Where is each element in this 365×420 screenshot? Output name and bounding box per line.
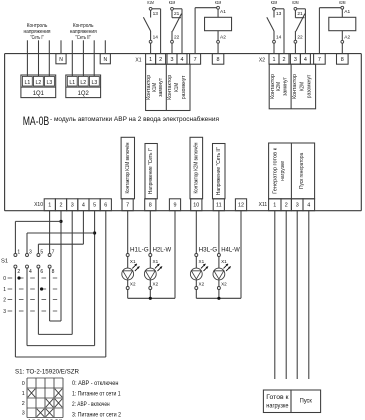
svg-text:22: 22 [174,35,180,41]
svg-text:H2L-W: H2L-W [153,247,172,253]
svg-text:К2М: К2М [339,0,345,6]
svg-text:H4L-W: H4L-W [221,247,240,253]
svg-text:К2М: К2М [299,82,305,91]
svg-text:0: 0 [22,381,25,387]
svg-text:Пуск: Пуск [300,397,312,404]
svg-text:2: 2 [22,401,25,407]
svg-text:3: 3 [29,249,32,255]
svg-text:N: N [103,57,107,63]
svg-text:1Q2: 1Q2 [78,90,89,97]
svg-text:3: 3 [296,203,299,209]
svg-text:6: 6 [40,269,43,275]
svg-text:13: 13 [153,11,159,17]
svg-text:1: 1 [48,203,51,209]
svg-text:Напряжение "Сеть I": Напряжение "Сеть I" [148,148,154,194]
svg-text:3: 3 [3,309,6,315]
svg-text:9: 9 [174,203,177,209]
svg-text:К1М: К1М [169,0,175,6]
svg-text:L2: L2 [80,80,86,86]
svg-text:Готов к: Готов к [266,394,288,401]
svg-text:L3: L3 [91,80,97,86]
svg-text:Х11: Х11 [259,202,268,208]
svg-text:7: 7 [126,203,129,209]
svg-text:X1: X1 [130,259,136,264]
svg-text:2: 2 [285,203,288,209]
svg-text:А2: А2 [344,35,350,41]
svg-text:11: 11 [216,203,222,209]
svg-text:N: N [59,57,63,63]
svg-text:S1: ТО-2-15920/Е/SZR: S1: ТО-2-15920/Е/SZR [15,368,80,375]
svg-text:Контактор К1М включён: Контактор К1М включён [125,142,131,193]
svg-text:X1: X1 [221,259,227,264]
svg-text:L2: L2 [36,80,42,86]
svg-text:L3: L3 [47,80,53,86]
svg-text:8: 8 [52,269,55,275]
svg-text:2: 2 [60,203,63,209]
svg-text:12: 12 [238,203,244,209]
svg-text:X2: X2 [130,282,136,287]
svg-text:разомкнут: разомкнут [306,74,312,98]
svg-text:К2М: К2М [276,82,282,91]
svg-text:1: Питание от сети 1: 1: Питание от сети 1 [72,392,121,398]
svg-text:нагрузке: нагрузке [280,161,286,181]
svg-text:8: 8 [217,57,220,63]
svg-text:L1: L1 [69,80,75,86]
svg-text:2: АВР - включен: 2: АВР - включен [72,402,110,408]
svg-text:"Сеть I": "Сеть I" [30,35,44,41]
svg-text:8: 8 [341,57,344,63]
svg-text:5: 5 [40,249,43,255]
svg-text:К1М: К1М [147,0,153,6]
svg-text:Х10: Х10 [34,202,43,208]
svg-text:4: 4 [181,57,184,63]
svg-text:Х1: Х1 [135,58,141,64]
svg-text:1: 1 [273,57,276,63]
svg-text:7: 7 [318,57,321,63]
svg-text:Контактор: Контактор [167,75,173,100]
svg-text:3: 3 [294,57,297,63]
svg-text:H1L-G: H1L-G [130,247,149,253]
svg-text:нагрузке: нагрузке [266,403,289,410]
svg-text:0: АВР - отключен: 0: АВР - отключен [72,381,118,387]
svg-text:7: 7 [194,57,197,63]
svg-text:Пуск генератора: Пуск генератора [299,153,305,189]
svg-text:X1: X1 [199,259,205,264]
svg-text:3: 3 [171,57,174,63]
svg-text:К1М: К1М [215,0,221,6]
svg-text:разомкнут: разомкнут [181,75,187,99]
svg-text:2: 2 [3,297,6,303]
svg-text:Генератор готов к: Генератор готов к [273,147,279,194]
svg-text:H3L-G: H3L-G [199,247,218,253]
svg-text:1Q1: 1Q1 [33,90,44,97]
svg-text:К2М: К2М [292,0,298,6]
svg-text:22: 22 [297,35,303,41]
svg-text:4: 4 [304,57,307,63]
svg-text:2: 2 [283,57,286,63]
svg-text:21: 21 [174,11,180,17]
svg-text:1: 1 [273,203,276,209]
svg-text:Контактор К2М включён: Контактор К2М включён [193,142,199,193]
svg-text:МА-0В: МА-0В [23,114,50,128]
svg-text:14: 14 [153,35,159,41]
svg-text:X2: X2 [199,282,205,287]
svg-text:7: 7 [52,249,55,255]
svg-text:0: 0 [3,276,6,282]
svg-text:А1: А1 [344,9,350,15]
svg-text:6: 6 [104,203,107,209]
svg-text:К2М: К2М [271,0,277,6]
svg-text:3: Питание от сети 2: 3: Питание от сети 2 [72,412,122,418]
svg-text:Контактор: Контактор [292,74,298,99]
svg-text:1: 1 [17,249,20,255]
svg-text:5: 5 [93,203,96,209]
svg-text:X1: X1 [153,259,159,264]
svg-text:2: 2 [17,269,20,275]
svg-text:Контактор: Контактор [270,74,276,99]
svg-text:X2: X2 [153,282,159,287]
svg-text:1: 1 [149,57,152,63]
svg-text:Напряжение "Сеть II": Напряжение "Сеть II" [216,147,222,195]
svg-text:13: 13 [276,11,282,17]
svg-text:замкнут: замкнут [158,77,164,97]
svg-text:замкнут: замкнут [282,76,288,96]
svg-text:1: 1 [22,391,25,397]
svg-text:3: 3 [71,203,74,209]
svg-text:А2: А2 [220,35,226,41]
svg-text:4: 4 [82,203,85,209]
svg-text:2: 2 [159,57,162,63]
svg-text:8: 8 [149,203,152,209]
svg-text:А1: А1 [220,9,226,15]
svg-text:- модуль автоматики АВР на 2 в: - модуль автоматики АВР на 2 ввода элект… [50,115,219,123]
svg-text:3: 3 [22,411,25,417]
svg-text:1: 1 [3,287,6,293]
svg-text:К1М: К1М [174,83,180,92]
svg-text:21: 21 [297,11,303,17]
svg-text:X2: X2 [221,282,227,287]
svg-text:14: 14 [276,35,282,41]
svg-text:4: 4 [29,269,32,275]
svg-text:4: 4 [307,203,310,209]
svg-text:S1: S1 [1,258,8,264]
svg-text:L1: L1 [24,80,30,86]
svg-text:10: 10 [193,203,199,209]
svg-text:"Сеть II": "Сеть II" [75,35,91,41]
svg-text:Х2: Х2 [259,58,265,64]
